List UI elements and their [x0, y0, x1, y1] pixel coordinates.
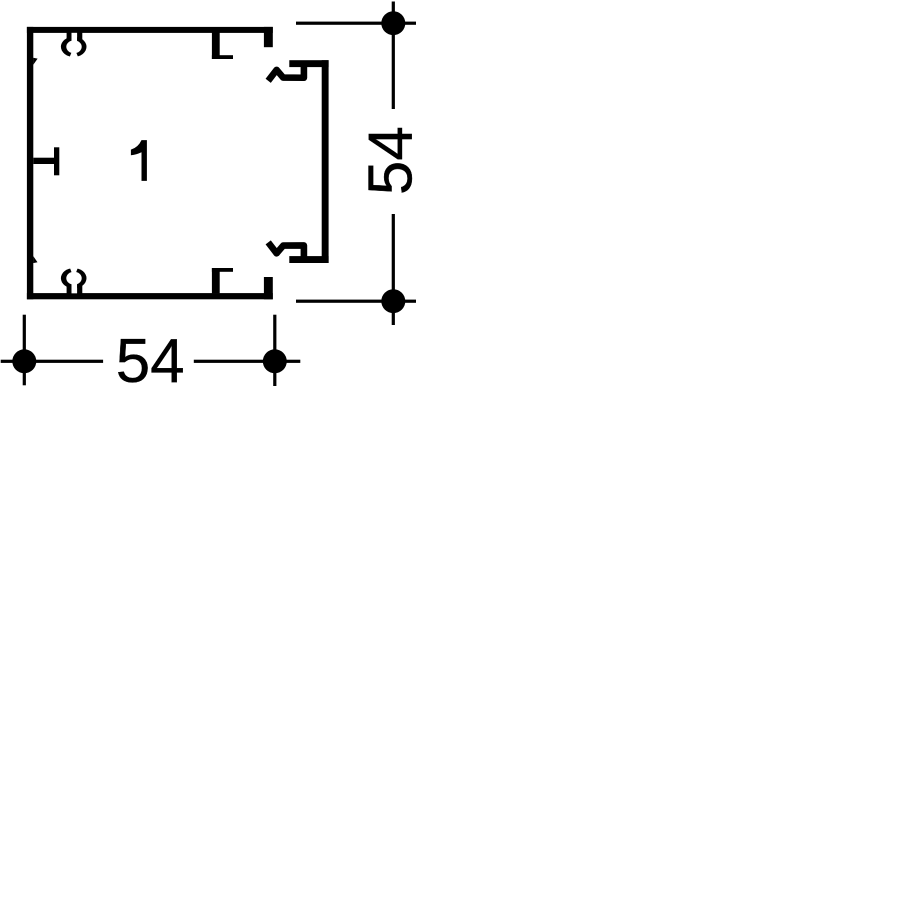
wire dim line right	[392, 2, 395, 110]
wire cover top wall	[289, 60, 328, 67]
node L-hook top-right	[212, 32, 220, 59]
wire extension tick left	[23, 315, 26, 386]
wire top wall	[27, 27, 273, 33]
svg-text:54: 54	[116, 327, 185, 396]
label 1	[131, 140, 147, 181]
cover profile	[268, 60, 328, 263]
wire bottom-right stub	[264, 277, 273, 299]
node dim dot left	[12, 349, 36, 373]
dimension vertical 54	[296, 2, 426, 326]
node L-hook bottom-right	[212, 268, 220, 293]
wire cover bottom wall	[289, 256, 328, 263]
node barb bottom-left	[33, 256, 37, 263]
dimension horizontal 54	[1, 315, 301, 396]
wire extension tick right	[273, 315, 276, 386]
wire top-right stub	[264, 27, 273, 47]
wire left wall	[27, 27, 33, 299]
node T-tab left wall	[33, 158, 57, 164]
node cover hook bottom	[268, 242, 304, 257]
node cover hook top	[268, 66, 304, 81]
node screw boss top	[61, 30, 87, 60]
wire dim line bottom	[1, 360, 103, 363]
wire extension line top	[296, 22, 416, 25]
wire cover right wall	[322, 60, 329, 263]
node dim dot right	[263, 349, 287, 373]
svg-text:54: 54	[357, 126, 426, 195]
trunking body profile 1	[27, 27, 273, 299]
node screw boss bottom	[61, 266, 87, 295]
node dim dot top	[381, 11, 405, 35]
wire extension line bottom	[296, 300, 416, 303]
wire bottom wall	[27, 293, 273, 299]
node barb top-left	[33, 58, 37, 65]
node dim dot bottom	[381, 289, 405, 313]
